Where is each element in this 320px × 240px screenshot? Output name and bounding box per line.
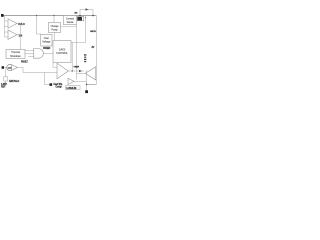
svg-text:Pump: Pump: [51, 28, 58, 31]
svg-text:Comp: Comp: [56, 86, 63, 88]
svg-text:FAULT: FAULT: [21, 61, 28, 64]
svg-text:Sense: Sense: [67, 21, 74, 24]
svg-text:Shutdown: Shutdown: [10, 55, 21, 58]
svg-text:Charge: Charge: [51, 25, 60, 28]
svg-text:RST: RST: [1, 85, 6, 88]
svg-text:IMON: IMON: [90, 31, 96, 33]
svg-text:Over: Over: [44, 37, 49, 40]
svg-text:dV: dV: [92, 47, 95, 49]
svg-text:Thermal: Thermal: [11, 51, 20, 54]
svg-text:VREF: VREF: [74, 66, 80, 68]
svg-text:GATE: GATE: [59, 49, 66, 52]
svg-text:1.25xILIM: 1.25xILIM: [66, 87, 76, 90]
svg-text:SWEN: SWEN: [43, 47, 50, 50]
svg-text:CONTROL: CONTROL: [56, 52, 68, 55]
svg-text:M1: M1: [75, 13, 79, 15]
svg-text:EN/UVLO: EN/UVLO: [9, 80, 19, 83]
svg-text:Voltage: Voltage: [42, 41, 51, 44]
